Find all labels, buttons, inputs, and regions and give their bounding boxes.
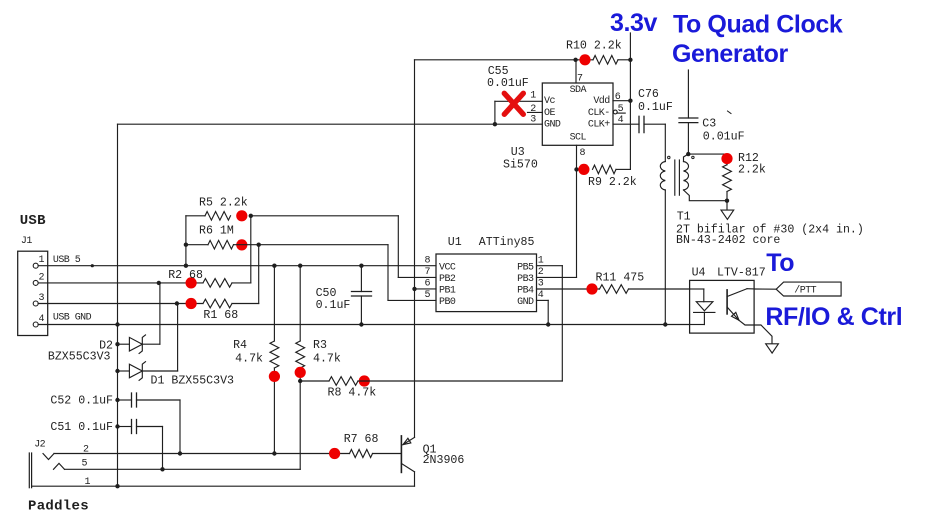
wire T1 primary bottom lead to GND rail [664,190,666,325]
wire Si570 pin2 OE stub [528,111,543,113]
svg-text:0.1uF: 0.1uF [316,299,351,312]
svg-text:Vdd: Vdd [593,95,610,107]
red highlight dot on R6 right [236,239,247,250]
svg-text:2N3906: 2N3906 [423,454,465,467]
capacitor C76 0.1uF [638,116,640,132]
svg-text:1: 1 [530,91,536,102]
U4 LED cathode to GND rail [703,312,705,324]
resistor R10 2.2k [593,56,618,65]
wire R2 right lead up to R5 node [232,282,251,284]
svg-text:8: 8 [580,148,586,159]
capacitor C51 0.1uF [115,424,119,428]
wire U4 emitter to ground [754,325,772,344]
red highlight dot on R1 left [186,298,197,309]
node USB5/R3 junction [298,264,302,268]
svg-text:6: 6 [425,279,431,290]
wire R9 right lead to 3.3v rail [616,168,630,170]
svg-text:2: 2 [538,267,544,278]
svg-text:BZX55C3V3: BZX55C3V3 [48,351,111,364]
node C3/T1-secondary/R12 junction [686,152,690,156]
zener diode D2 BZX55C3V3 [115,342,119,346]
wire USB 5 rail y=265.7 to U1 VCC [38,265,436,267]
svg-text:R8 4.7k: R8 4.7k [328,387,377,400]
wire Si570 pin6 Vdd lead [613,100,630,102]
resistor R11 475 [537,288,600,290]
node PB1/long-vertical junction [412,287,416,291]
node GND/T1-primary junction [663,322,667,326]
svg-text:R6 1M: R6 1M [199,225,234,238]
svg-text:PB3: PB3 [517,274,534,285]
svg-text:CLK-: CLK- [588,108,610,119]
wire R1 right lead up to R6 node [232,303,259,305]
svg-text:4: 4 [538,290,544,301]
resistor R3 4.7k [299,266,301,341]
resistor R1 68 [203,299,232,308]
wire R6/R1 node to U1 PB0 [234,244,259,246]
node GND/U1-pin4 junction [546,322,550,326]
svg-text:PB0: PB0 [439,297,456,308]
svg-text:U1: U1 [448,236,462,249]
node R6 right junction [257,243,261,247]
svg-text:LTV-817: LTV-817 [717,266,766,279]
U4 phototransistor emitter with arrow [727,307,739,320]
wire pin5 underline stub [617,112,625,114]
ground symbol below R12 [726,201,728,210]
svg-text:1: 1 [538,256,544,267]
svg-text:/PTT: /PTT [794,285,816,297]
svg-text:2: 2 [39,272,45,283]
svg-text:C52 0.1uF: C52 0.1uF [50,395,113,408]
svg-text:5: 5 [82,459,88,470]
wire J1 pin3 row to R1 [38,303,203,305]
svg-text:R2 68: R2 68 [168,269,203,282]
resistor R9 2.2k [593,165,617,174]
connector J2 stereo jack sleeve [28,453,30,488]
resistor R12 2.2k [723,165,732,192]
node pin1row/bus junction [115,484,119,488]
svg-text:SCL: SCL [570,133,587,144]
optocoupler U4 LTV-817 body [690,280,755,333]
U4 LED diode [696,302,713,311]
svg-text:Vc: Vc [544,96,555,107]
svg-text:J1: J1 [21,236,32,247]
T1 secondary phase dot [692,156,694,158]
svg-text:PB1: PB1 [439,286,456,297]
svg-text:D1 BZX55C3V3: D1 BZX55C3V3 [151,374,235,387]
wire USB-GND vertical bus x=117.5 [117,124,119,486]
wire C55 vertical leg [494,101,496,124]
transformer T1 secondary winding [684,162,689,191]
red highlight dot on R7 left [329,448,340,459]
op-amp U3 Si570 body [542,83,613,145]
J2 tip contact chevron pin2 [43,454,54,460]
resistor R4 4.7k [273,266,275,341]
node USB5/R5R6 junction [184,264,188,268]
wire R7 to Q1 base [373,453,402,455]
svg-text:4.7k: 4.7k [313,353,341,366]
svg-text:8: 8 [425,256,431,267]
net tap dot on USB5 rail [91,264,94,267]
node pin2row/R4 junction [272,451,276,455]
svg-text:USB: USB [20,213,46,229]
svg-text:VCC: VCC [439,263,456,274]
ground symbol below U4 [766,344,779,353]
svg-text:PB2: PB2 [439,274,456,285]
svg-text:C76: C76 [638,88,659,101]
U4 phototransistor base bar [726,290,728,314]
red highlight dot on R10 left [579,54,590,65]
svg-text:U3: U3 [511,146,525,159]
svg-text:3: 3 [538,279,544,290]
svg-text:3: 3 [39,293,45,304]
node SDA/R10 junction [573,58,577,62]
node R3/R8 junction [298,379,302,383]
wire T1 secondary bottom lead [684,190,728,201]
node SCL/R9 junction [574,167,578,171]
tiny tick artifact [728,111,732,114]
wire R12 bottom lead [726,192,728,201]
svg-text:R9 2.2k: R9 2.2k [588,176,637,189]
wire R5/R2 node to U1 PB2 [251,215,398,217]
svg-text:4.7k: 4.7k [235,353,263,366]
red X delete mark over C55/Vc wire [504,93,523,114]
capacitor C3 0.01uF [679,117,698,119]
svg-text:3: 3 [530,114,536,125]
svg-text:5: 5 [425,290,431,301]
wire C76 to T1 primary top [644,123,665,125]
svg-text:PB4: PB4 [517,286,534,297]
red highlight dot on R5 right [236,210,247,221]
red highlight dot on R2 left [186,277,197,288]
wire C3 bottom lead [687,123,689,155]
wire GND rail y=324.5 [38,324,689,326]
wire J1 pin2 row to R2 [38,282,203,284]
wire Si570 pin4 CLK+ lead to C76 [613,123,639,125]
wire C3 top stub [687,70,689,118]
svg-text:Paddles: Paddles [28,498,89,514]
capacitor C52 0.1uF [115,398,119,402]
node C55/GND wire junction [493,122,497,126]
wire U1 pin4 GND down to rail [537,299,549,301]
red highlight dot on R3 bottom [295,367,306,378]
T1 primary phase dot [668,156,670,158]
zener diode D1 BZX55C3V3 [115,369,119,373]
wire J2 pin5 row to R3 [65,468,301,470]
transistor Q1 2N3906 [400,436,402,473]
node pin5row/C51 junction [160,467,164,471]
node R5 right junction [249,214,253,218]
svg-text:7: 7 [577,74,583,85]
net flag /PTT [776,282,841,296]
capacitor C50 0.1uF [360,266,362,292]
svg-text:0.01uF: 0.01uF [703,131,745,144]
svg-text:R11 475: R11 475 [596,272,645,285]
connector J1 USB body [18,251,48,335]
wire U1 PB3 to SCL vertical [537,276,577,278]
svg-text:R7 68: R7 68 [344,433,379,446]
svg-text:SDA: SDA [570,85,587,96]
red highlight dot on R11 left [586,283,597,294]
svg-text:GND: GND [544,120,561,131]
node R10/3.3v rail junction [628,58,632,62]
svg-text:USB 5: USB 5 [53,255,81,266]
svg-text:ATTiny85: ATTiny85 [479,236,535,249]
svg-text:7: 7 [425,267,431,278]
wire Si570 pin1 Vc lead [495,100,542,102]
wire U4 output to PTT flag [754,288,776,290]
node R6 left junction [184,243,188,247]
svg-text:0.1uF: 0.1uF [638,101,673,114]
wire R8 to PB5 [358,380,562,382]
svg-text:GND: GND [517,297,534,308]
svg-text:0.01uF: 0.01uF [487,77,529,90]
wire GND net to Si570 pin3 horizontal y=124 [118,123,543,125]
wire J2 pin2 row to R7 [54,453,350,455]
svg-text:4: 4 [39,314,45,325]
svg-text:J2: J2 [34,439,45,450]
U4 LED anode wire [690,288,704,290]
svg-text:U4: U4 [692,266,706,279]
svg-text:6: 6 [615,92,621,103]
svg-text:Generator: Generator [672,40,789,68]
red highlight dot on R8 right [359,375,370,386]
J1 pin 4 contact [33,322,38,327]
U4 phototransistor collector [727,289,747,297]
svg-text:To Quad Clock: To Quad Clock [673,11,843,39]
resistor R7 68 [350,450,373,458]
node USB5/R4 junction [272,264,276,268]
wire T1 secondary top lead [684,154,689,161]
wire 3.3v vertical rail x=630.4 [629,33,631,169]
node pin2/D2 junction [157,281,161,285]
svg-text:OE: OE [544,108,555,119]
wire long vertical net SDA/PB1/Q1-emitter x=414.5 [414,60,416,438]
wire R10 right lead [618,59,630,61]
node GND/left-bus junction [115,322,119,326]
wire top horizontal SDA net y=59.8 [415,59,594,61]
svg-text:2.2k: 2.2k [738,164,766,177]
resistor R2 68 [203,279,232,288]
svg-text:CLK+: CLK+ [588,120,610,131]
IC U1 ATTiny85 body [436,254,537,312]
node R12/secondary-bottom junction [725,199,729,203]
wire Si570 pin7 SDA stub [575,60,577,83]
svg-text:To: To [766,249,794,277]
red highlight dot on R9 left [578,164,589,175]
svg-text:C51 0.1uF: C51 0.1uF [50,421,113,434]
J2 ring contact chevron pin5 [54,463,65,469]
node Vdd/3.3v junction [628,99,632,103]
svg-text:R1 68: R1 68 [203,309,238,322]
svg-text:R10 2.2k: R10 2.2k [566,40,622,53]
node GND/C50 junction [359,322,363,326]
no-connect circle Si570 pin5 CLK- [613,110,617,114]
node pin2row/C52 junction [178,451,182,455]
red highlight dot on R12 top [721,153,732,164]
wire R11 to U4 [629,288,690,290]
transformer T1 primary winding [660,162,665,191]
wire junction to R12 top [688,153,727,155]
svg-text:BN-43-2402 core: BN-43-2402 core [676,234,780,247]
svg-text:USB GND: USB GND [53,313,92,324]
wire Si570 pin8 SCL vertical to PB3 [576,145,578,277]
transformer T1 core [674,160,676,195]
J1 pin 3 contact [33,301,38,306]
svg-text:3.3v: 3.3v [610,9,658,37]
node USB5/C50 junction [359,264,363,268]
node pin3/D1 junction [175,301,179,305]
svg-text:1: 1 [39,255,45,266]
resistor R5 2.2k [186,215,205,217]
J1 pin 2 contact [33,280,38,285]
svg-text:R3: R3 [313,339,327,352]
svg-text:R5 2.2k: R5 2.2k [199,197,248,210]
wire J2 pin1 row to Q1 collector [32,485,415,487]
J1 pin 1 contact [33,263,38,268]
resistor R8 4.7k [300,380,329,382]
svg-text:RF/IO & Ctrl: RF/IO & Ctrl [765,303,902,331]
svg-text:T1: T1 [677,210,691,223]
svg-text:R4: R4 [233,339,247,352]
resistor R6 1M [186,244,208,246]
svg-text:C3: C3 [702,117,716,130]
svg-text:PB5: PB5 [517,263,534,274]
svg-text:Si570: Si570 [503,159,538,172]
red highlight dot on R4 bottom [269,371,280,382]
